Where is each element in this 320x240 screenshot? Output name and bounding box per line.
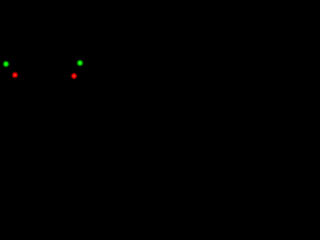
green light right bbox=[76, 59, 84, 67]
red light left bbox=[11, 71, 19, 79]
green light left bbox=[2, 60, 10, 68]
red light right bbox=[70, 72, 78, 80]
